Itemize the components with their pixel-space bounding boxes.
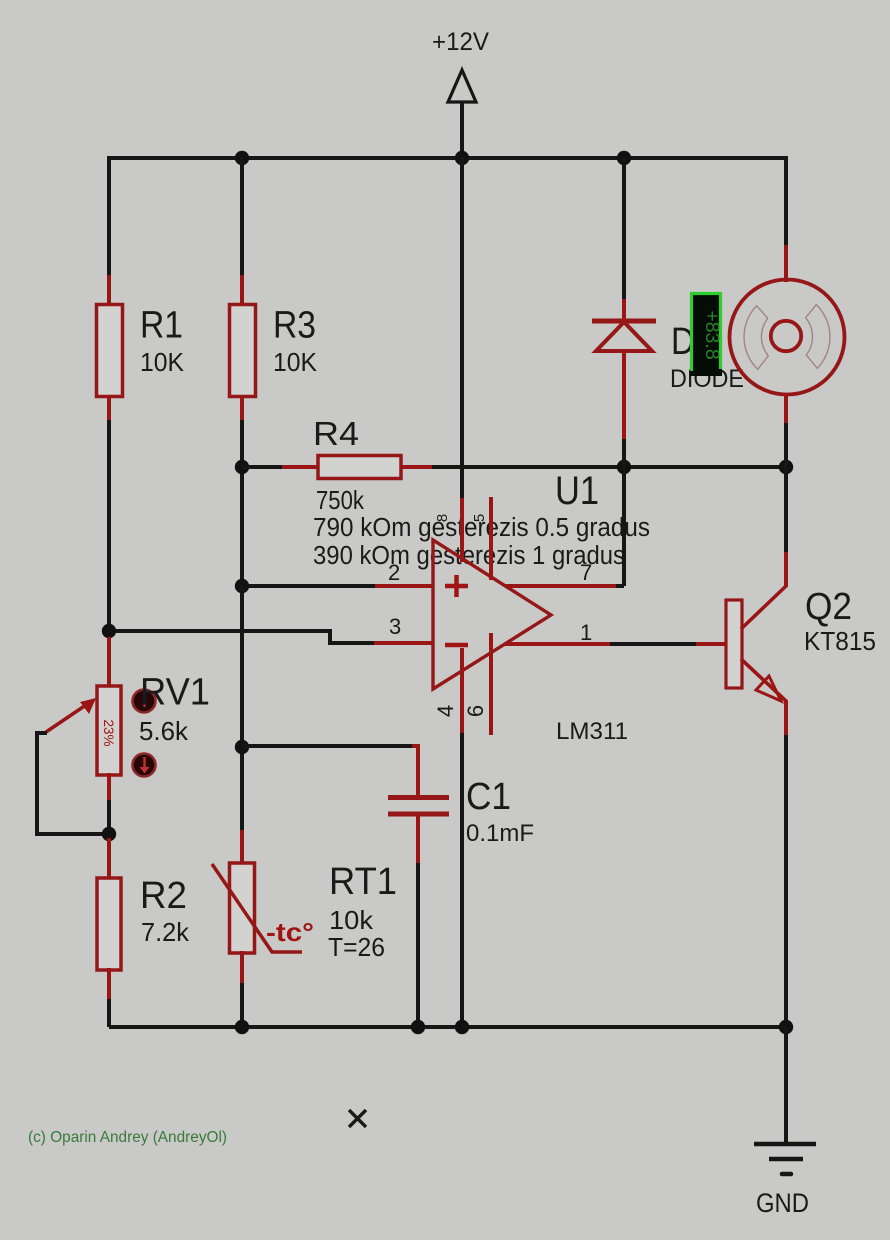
resistor R1 [97,305,185,397]
wire R3 bottom to R4 node [240,395,244,588]
node RV1 bottom / R2 top [102,827,116,841]
wire RV1 top stub [107,637,111,688]
wire RV1 bottom [107,773,111,834]
pin label 3 [389,614,401,639]
wire C1 top from RT1 node [242,746,418,798]
svg-text:5: 5 [471,514,488,522]
svg-text:10k: 10k [329,905,374,935]
wire top rail [109,158,786,160]
svg-text:R4: R4 [313,415,359,452]
node C1 wire / RT1 column [235,740,249,754]
svg-text:10K: 10K [140,347,185,377]
resistor R2 [97,875,190,970]
wire R1 bottom [107,395,111,633]
wire RV1 wiper loop [37,733,109,834]
node top rail / R3 column [235,151,249,165]
svg-text:U1: U1 [555,469,599,513]
svg-text:RT1: RT1 [329,861,397,903]
wire pin 1 output to Q2 base [505,642,727,646]
potentiometer RV1 [46,672,210,776]
svg-text:2: 2 [388,560,400,585]
node pin2 / R3 column [235,579,249,593]
node ground rail / RT1 [235,1020,249,1034]
wire R2 top stub [107,838,111,880]
wire ground rail [109,1025,786,1029]
probe marker 1 [133,690,156,713]
wire diode top [622,158,626,322]
wire R4 left stub [242,465,319,469]
pin 8 stub [460,496,464,562]
pin label 2 [388,560,400,585]
pin 6 stub [489,633,493,735]
svg-text:(c) Oparin Andrey (AndreyOl): (c) Oparin Andrey (AndreyOl) [28,1129,227,1146]
wire pin 3 from RV1 node [109,631,434,643]
pin label 8 [434,514,451,522]
wire pin 7 from output node [505,467,624,586]
wire Q2 collector [784,467,788,587]
transistor Q2 KT815 [726,586,876,701]
pin 5 stub [489,497,493,580]
svg-text:+12V: +12V [432,28,489,56]
node top rail / diode column [617,151,631,165]
svg-text:R2: R2 [140,875,187,917]
ground GND [754,1027,816,1218]
resistor R3 [230,305,318,397]
svg-text:+83.8: +83.8 [701,310,723,359]
svg-text:7: 7 [580,560,592,585]
svg-text:5.6k: 5.6k [139,716,189,746]
diode D1 [592,321,744,393]
svg-text:RV1: RV1 [140,672,210,714]
power symbol +12V [432,28,489,158]
pin label 4 [433,705,458,717]
svg-text:-tc°: -tc° [266,917,314,947]
note hysteresis line 2 [313,542,625,570]
node R4 left [235,460,249,474]
wire RT1 bottom [240,951,244,1027]
voltmeter display +83.8 [690,292,723,376]
wire pin 2 from R3 node [242,584,434,588]
svg-text:8: 8 [434,514,451,522]
svg-text:GND: GND [756,1188,809,1218]
svg-text:6: 6 [463,705,488,717]
pin 4 stub [460,648,464,735]
close mark x [349,1110,366,1127]
op-amp U1 LM311 [433,469,628,745]
copyright note [28,1129,227,1146]
svg-text:T=26: T=26 [328,932,385,962]
pin label 1 [580,620,592,645]
svg-text:1: 1 [580,620,592,645]
svg-text:390 kOm gesterezis 1 gradus: 390 kOm gesterezis 1 gradus [313,542,625,570]
probe marker 2 [133,754,156,777]
svg-text:R3: R3 [273,305,316,347]
wire C1 bottom [416,814,420,1027]
node output column [617,460,631,474]
svg-text:0.1mF: 0.1mF [466,820,534,847]
node ground rail / C1 [411,1020,425,1034]
wire motor top [784,158,788,282]
wire Q2 emitter to ground rail [784,700,788,1027]
node right column [779,460,793,474]
wire RT1 column from C1 node [240,586,244,865]
svg-text:4: 4 [433,705,458,717]
node top rail / mid column [455,151,469,165]
svg-text:KT815: KT815 [804,626,876,656]
svg-text:R1: R1 [140,305,183,347]
svg-text:750k: 750k [316,485,365,515]
svg-text:C1: C1 [466,776,511,818]
resistor R4 750k [313,415,401,515]
svg-text:23%: 23% [101,719,116,746]
wire diode bottom to node [622,351,626,586]
node ground rail / GND [779,1020,793,1034]
svg-text:10K: 10K [273,347,318,377]
svg-text:Q2: Q2 [805,586,852,628]
capacitor C1 [388,776,534,847]
pin label 7 [580,560,592,585]
wire R4 right to output node [401,465,786,469]
thermistor RT1 [212,861,397,962]
wire +12V column down to pin 8 [460,158,464,498]
svg-text:7.2k: 7.2k [141,917,190,947]
node ground rail / pin4 [455,1020,469,1034]
note hysteresis line 1 [313,514,650,542]
pin label 6 [463,705,488,717]
pin label 5 [471,514,488,522]
motor M1 [730,280,845,395]
wire R1 top [107,158,111,306]
svg-text:3: 3 [389,614,401,639]
node RV1 top [102,624,116,638]
wire R3 top [240,158,244,306]
svg-text:LM311: LM311 [556,718,628,745]
wire motor bottom to node [784,393,788,467]
wire R2 bottom [107,968,111,1027]
wire pin 4 down to ground rail [460,733,464,1027]
